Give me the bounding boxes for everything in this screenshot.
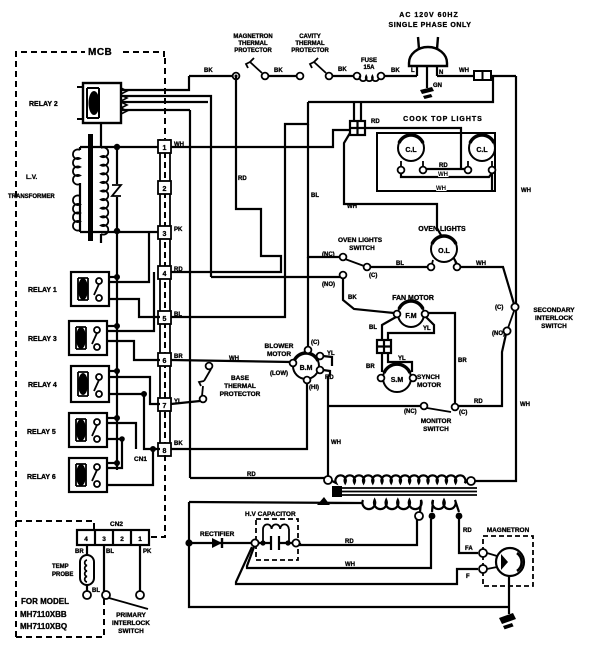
svg-text:WH: WH xyxy=(331,440,341,446)
wire fuse to plug xyxy=(384,75,417,77)
MCB dashed enclosure xyxy=(16,52,164,637)
primary interlock switch xyxy=(102,545,148,609)
filament lead nodes xyxy=(429,513,436,520)
connector CN1 strip xyxy=(160,58,170,455)
svg-text:SECONDARY: SECONDARY xyxy=(533,307,575,314)
wire N return drop xyxy=(308,76,493,102)
HV transformer primary terminal right xyxy=(467,477,475,485)
wire pin6 BR to blower motor LOW xyxy=(171,360,291,362)
svg-text:BL: BL xyxy=(92,588,100,594)
wire FA from filament xyxy=(459,519,478,553)
CN1 pin 2 xyxy=(158,181,171,194)
wire WH bottom via box edge xyxy=(491,173,493,191)
svg-text:4: 4 xyxy=(84,536,88,543)
svg-text:RD: RD xyxy=(474,399,483,405)
fuse F1 15A xyxy=(354,73,385,82)
wire relay1 bottom contact to pin5 xyxy=(109,299,160,317)
svg-text:WH: WH xyxy=(476,261,486,267)
svg-text:C.L: C.L xyxy=(405,147,417,154)
wire protector to fuse xyxy=(332,75,354,77)
node relay4 wire xyxy=(141,391,147,397)
svg-text:FA: FA xyxy=(465,546,473,552)
lamp C.L left xyxy=(398,135,427,173)
wire block to SM left xyxy=(381,353,383,372)
wire secondary left lead xyxy=(189,502,363,503)
svg-text:PRIMARY: PRIMARY xyxy=(116,612,146,619)
svg-text:RECTIFIER: RECTIFIER xyxy=(200,531,235,538)
wire WH drop from block xyxy=(344,133,457,264)
svg-text:YL: YL xyxy=(398,356,406,362)
svg-text:MH7110XBQ: MH7110XBQ xyxy=(20,622,67,631)
svg-text:PROTECTOR: PROTECTOR xyxy=(291,48,329,54)
HV transformer secondary terminal xyxy=(415,512,423,520)
connector block motors xyxy=(377,340,391,353)
inline connector (plug to cabinet) xyxy=(474,71,491,80)
svg-text:MAGNETRON: MAGNETRON xyxy=(233,34,272,40)
wire relay2 contact D to RD vertical xyxy=(121,109,190,111)
svg-text:BK: BK xyxy=(174,441,183,447)
svg-text:THERMAL: THERMAL xyxy=(224,383,256,390)
wire relay3 bottom contact to pin6 xyxy=(107,341,160,360)
wire vertical with thermal fuse xyxy=(116,147,118,231)
wire monitor NC to transformer vertical xyxy=(328,405,421,407)
wire magnetron ground stem xyxy=(508,576,510,614)
svg-text:S.M: S.M xyxy=(391,377,404,384)
svg-text:2: 2 xyxy=(163,186,167,193)
svg-text:GN: GN xyxy=(433,83,442,89)
svg-text:(HI): (HI) xyxy=(309,385,319,391)
wire between protectors xyxy=(268,75,297,77)
svg-text:WH: WH xyxy=(521,188,531,194)
base thermal protector switch xyxy=(199,363,212,403)
node rectifier junction xyxy=(185,539,192,546)
svg-text:TEMP: TEMP xyxy=(52,564,69,570)
svg-text:WH: WH xyxy=(438,172,448,178)
oven lights switch xyxy=(340,254,371,279)
wire BM RD to transformer feed vertical xyxy=(323,370,330,478)
svg-text:RELAY 6: RELAY 6 xyxy=(27,474,56,481)
svg-text:RD: RD xyxy=(439,163,448,169)
wire BM YL stub xyxy=(323,356,332,366)
svg-text:RD: RD xyxy=(247,472,256,478)
wire connector to right WH rail xyxy=(491,75,516,77)
cook top lights box xyxy=(377,133,495,191)
svg-text:7: 7 xyxy=(163,403,167,410)
wire plug N to inline connector xyxy=(437,75,474,77)
wire oven switch NO from relay2 xyxy=(211,276,340,278)
node junction top xyxy=(114,144,120,150)
svg-text:YL: YL xyxy=(423,326,431,332)
svg-text:SWITCH: SWITCH xyxy=(118,628,144,635)
wire transformer bottom to CN1 pin3 xyxy=(80,231,159,233)
secondary interlock switch xyxy=(503,303,518,334)
magnetron V1 xyxy=(479,536,533,586)
wire cook top RD feed xyxy=(365,128,461,169)
svg-text:SINGLE PHASE ONLY: SINGLE PHASE ONLY xyxy=(388,22,471,29)
wire N return to BL vertical and pin5 xyxy=(160,102,308,317)
wire relay coil bus xyxy=(116,231,118,470)
svg-text:WH: WH xyxy=(459,68,469,74)
svg-text:BLOWER: BLOWER xyxy=(265,343,294,350)
svg-text:PROTECTOR: PROTECTOR xyxy=(234,48,272,54)
blower motor B.M xyxy=(290,347,324,384)
CN1 pin 1 xyxy=(158,140,171,153)
svg-text:8: 8 xyxy=(163,448,167,455)
svg-text:BK: BK xyxy=(274,68,283,74)
svg-text:WH: WH xyxy=(436,186,446,192)
svg-text:OVEN LIGHTS: OVEN LIGHTS xyxy=(418,226,466,233)
relay R1 xyxy=(71,272,109,306)
magnetron thermal protector switch xyxy=(233,58,269,79)
CN1 pin 4 xyxy=(158,266,171,279)
svg-text:(NO): (NO) xyxy=(492,331,505,337)
svg-text:RD: RD xyxy=(463,528,472,534)
HV transformer T2 primary winding xyxy=(332,475,467,483)
rectifier diode D1 xyxy=(212,538,222,548)
HV capacitor C1 xyxy=(251,519,299,560)
wire relay3 top contact to pin4 net xyxy=(107,272,154,331)
svg-text:4: 4 xyxy=(163,271,167,278)
svg-text:H.V CAPACITOR: H.V CAPACITOR xyxy=(245,511,296,518)
ground symbol magnetron xyxy=(499,613,516,629)
svg-text:FAN MOTOR: FAN MOTOR xyxy=(392,295,434,302)
svg-text:BL: BL xyxy=(369,325,377,331)
svg-text:3: 3 xyxy=(102,536,106,543)
relay R6 xyxy=(69,458,107,492)
HV transformer core xyxy=(332,486,477,497)
wire rectifier feed xyxy=(189,542,251,544)
svg-text:INTERLOCK: INTERLOCK xyxy=(535,315,573,322)
svg-text:BR: BR xyxy=(75,549,84,555)
svg-text:F.M: F.M xyxy=(405,313,416,320)
node junction bottom xyxy=(114,228,120,234)
svg-text:(LOW): (LOW) xyxy=(270,371,288,377)
wire WH middle xyxy=(401,173,492,177)
svg-text:MCB: MCB xyxy=(88,47,112,58)
svg-text:THERMAL: THERMAL xyxy=(238,41,268,47)
svg-text:F: F xyxy=(466,574,470,580)
svg-text:B.M: B.M xyxy=(300,365,313,372)
wire transformer secondary top to CN1 pin1 xyxy=(80,146,159,148)
wire relay4 top contact to pin7 xyxy=(109,377,160,404)
CN1 pin 3 xyxy=(158,226,171,239)
wire NO drop from oven switch to fan motor xyxy=(343,278,394,313)
wire capacitor left to F return xyxy=(236,547,478,584)
svg-text:WH: WH xyxy=(229,356,239,362)
svg-text:FOR MODEL: FOR MODEL xyxy=(21,597,69,606)
svg-text:(C): (C) xyxy=(311,340,319,346)
wire FM right to BR vertical xyxy=(428,313,455,404)
thermal fuse Z symbol xyxy=(112,185,121,196)
svg-text:CAVITY: CAVITY xyxy=(299,34,321,40)
svg-text:BK: BK xyxy=(204,68,213,74)
synch motor S.M xyxy=(378,364,417,392)
wire pin7 YL to protector xyxy=(171,401,200,404)
CN1 pin 8 xyxy=(158,443,171,456)
relay R3 xyxy=(69,321,107,355)
wire bus junction dots and stubs to relay coils xyxy=(107,274,120,466)
svg-text:PK: PK xyxy=(174,227,183,233)
svg-text:RD: RD xyxy=(345,539,354,545)
wire relay4 bottom contact to pin8 xyxy=(109,394,160,449)
svg-text:(NC): (NC) xyxy=(404,409,417,415)
svg-text:MOTOR: MOTOR xyxy=(267,351,291,358)
wire capacitor left to WH filament xyxy=(247,519,431,568)
svg-text:COOK TOP LIGHTS: COOK TOP LIGHTS xyxy=(403,116,483,123)
svg-text:PK: PK xyxy=(143,549,152,555)
CN1 pin 6 xyxy=(158,353,171,366)
lamp C.L right xyxy=(465,135,496,173)
wire capacitor to HV secondary RD xyxy=(300,519,417,545)
svg-text:FUSE: FUSE xyxy=(361,58,377,64)
svg-text:RELAY 3: RELAY 3 xyxy=(28,336,57,343)
wire relay5 top contact xyxy=(107,423,136,449)
ground triangle at core xyxy=(317,497,330,505)
svg-text:BR: BR xyxy=(458,358,467,364)
wire O.L right to secondary interlock C xyxy=(460,267,514,304)
svg-text:RD: RD xyxy=(371,119,380,125)
wire top BK line to magnetron thermal protector xyxy=(189,75,233,77)
relay R5 xyxy=(69,413,107,447)
wire relay1 top contact to pin3 net xyxy=(109,232,149,282)
svg-text:(C): (C) xyxy=(495,305,503,311)
relay R4 xyxy=(71,366,109,402)
wire relay2 to top BK feed xyxy=(121,76,189,90)
svg-text:RELAY 5: RELAY 5 xyxy=(27,429,56,436)
wire relay2 contact B to oven switch NO vertical xyxy=(121,96,211,277)
relay R2 xyxy=(77,83,127,123)
svg-text:BASE: BASE xyxy=(231,375,250,382)
svg-text:L: L xyxy=(411,68,415,74)
wire WH right rail (full height) xyxy=(475,76,516,481)
connector CN3 cook-top block xyxy=(350,103,365,135)
AC plug xyxy=(409,37,447,88)
svg-text:INTERLOCK: INTERLOCK xyxy=(112,620,150,627)
temp probe xyxy=(80,545,94,599)
dashed links CN2 xyxy=(16,455,165,637)
svg-text:TRANSFORMER: TRANSFORMER xyxy=(8,194,55,200)
svg-text:15A: 15A xyxy=(363,65,375,71)
svg-text:SWITCH: SWITCH xyxy=(541,323,567,330)
svg-text:O.L: O.L xyxy=(438,248,450,255)
CN1 pin 5 xyxy=(158,311,171,324)
svg-text:BL: BL xyxy=(174,312,182,318)
node relay56 xyxy=(119,436,125,442)
svg-text:5: 5 xyxy=(163,316,167,323)
svg-text:WH: WH xyxy=(520,402,530,408)
svg-text:MH7110XBB: MH7110XBB xyxy=(20,610,67,619)
svg-text:WH: WH xyxy=(345,562,355,568)
svg-text:MONITOR: MONITOR xyxy=(421,418,452,425)
ground symbol below plug xyxy=(420,87,434,99)
svg-text:BK: BK xyxy=(391,68,400,74)
svg-text:MAGNETRON: MAGNETRON xyxy=(487,527,530,534)
monitor switch xyxy=(421,403,459,412)
wire RD between lamps xyxy=(426,168,465,170)
svg-text:BL: BL xyxy=(396,261,404,267)
HV transformer T2 primary terminal left xyxy=(324,476,332,484)
svg-text:WH: WH xyxy=(347,204,357,210)
svg-text:1: 1 xyxy=(163,145,167,152)
wire relay2 contact C xyxy=(121,101,208,103)
svg-text:SYNCH: SYNCH xyxy=(417,374,440,381)
connector CN2 xyxy=(77,530,149,545)
wire FM left BL to connector xyxy=(382,317,396,340)
CN1 pin 7 xyxy=(158,398,171,411)
svg-text:C.L: C.L xyxy=(476,147,488,154)
wire BM HI to pin8 BK xyxy=(171,383,307,449)
svg-text:CN2: CN2 xyxy=(110,521,123,528)
node pin8 junction xyxy=(150,446,156,452)
svg-text:(NO): (NO) xyxy=(322,282,335,288)
svg-text:L.V.: L.V. xyxy=(26,174,38,181)
svg-text:RELAY 2: RELAY 2 xyxy=(29,101,58,108)
wire relay6 bottom contact xyxy=(107,451,153,485)
wire HV left drop to rectifier xyxy=(188,502,190,543)
HV transformer secondary winding xyxy=(362,500,421,512)
cavity thermal protector switch xyxy=(297,58,333,79)
HV transformer filament winding xyxy=(432,500,459,512)
wire NO to monitor RD wire xyxy=(458,334,506,406)
svg-text:BR: BR xyxy=(366,364,375,370)
svg-text:THERMAL: THERMAL xyxy=(295,41,325,47)
svg-text:SWITCH: SWITCH xyxy=(423,426,449,433)
wire BL to blower motor C xyxy=(307,257,309,347)
wire pin4 RD feed from top chain xyxy=(171,76,281,272)
wire block to SM right xyxy=(388,353,412,372)
wire FM right YL to synch motor xyxy=(388,317,434,340)
fan motor F.M xyxy=(394,301,429,327)
svg-text:BL: BL xyxy=(106,549,114,555)
svg-text:RELAY 4: RELAY 4 xyxy=(28,382,57,389)
svg-text:AC 120V 60HZ: AC 120V 60HZ xyxy=(399,12,458,19)
svg-text:2: 2 xyxy=(120,536,124,543)
svg-text:BK: BK xyxy=(338,67,347,73)
lamp O.L xyxy=(428,236,461,270)
wire BL drop to oven lights switch NC xyxy=(308,124,340,257)
wire RD HV primary feed horizontal xyxy=(190,478,328,480)
wire switch C to O.L xyxy=(370,266,428,268)
svg-text:(C): (C) xyxy=(459,410,467,416)
svg-text:1: 1 xyxy=(138,536,142,543)
svg-text:SWITCH: SWITCH xyxy=(349,245,375,252)
svg-text:6: 6 xyxy=(163,358,167,365)
wire relay5 bottom to relay6 top xyxy=(107,439,122,468)
L.V. transformer T1 xyxy=(73,124,108,243)
wire bottom return xyxy=(189,543,509,607)
svg-text:PROTECTOR: PROTECTOR xyxy=(220,391,261,398)
svg-text:BL: BL xyxy=(311,193,319,199)
svg-text:RD: RD xyxy=(238,176,247,182)
wire RD vertical from relay2 to HV primary feed xyxy=(189,110,191,478)
svg-text:(NC): (NC) xyxy=(322,252,335,258)
wire pin1 WH to cook top connector xyxy=(171,130,350,147)
svg-text:BK: BK xyxy=(348,295,357,301)
svg-text:(C): (C) xyxy=(369,273,377,279)
svg-text:3: 3 xyxy=(163,231,167,238)
svg-text:PROBE: PROBE xyxy=(52,572,73,578)
svg-text:OVEN LIGHTS: OVEN LIGHTS xyxy=(338,237,383,244)
svg-text:MOTOR: MOTOR xyxy=(417,382,441,389)
svg-text:RELAY 1: RELAY 1 xyxy=(28,287,57,294)
svg-text:CN1: CN1 xyxy=(134,456,147,463)
